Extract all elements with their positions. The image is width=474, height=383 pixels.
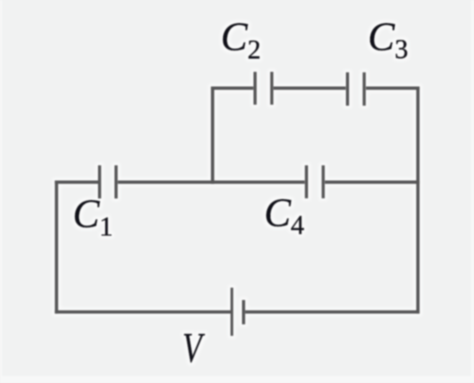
wire: top segment C3 to right corner [366,86,420,89]
capacitor C4 plates [306,165,323,198]
battery V long plate [230,288,233,336]
wire: left vertical branch [55,181,58,314]
wire: vertical riser to top branch [211,87,214,184]
wire: bottom left segment [55,310,231,313]
capacitor C3 plates [348,72,365,106]
wire: bottom right segment [245,310,420,313]
wire: top segment riser to C2 [211,86,254,89]
wire: right vertical branch [416,87,419,314]
battery V short plate [242,300,245,324]
capacitor C1 plates [100,165,117,198]
wire: middle segment C1 to C4 [118,180,305,183]
capacitor C2 plates [255,72,272,105]
wire: top segment C2 to C3 [274,86,346,89]
wire: middle left segment (left node to C1) [55,180,98,183]
wire: middle right segment C4 to right branch [325,180,420,183]
